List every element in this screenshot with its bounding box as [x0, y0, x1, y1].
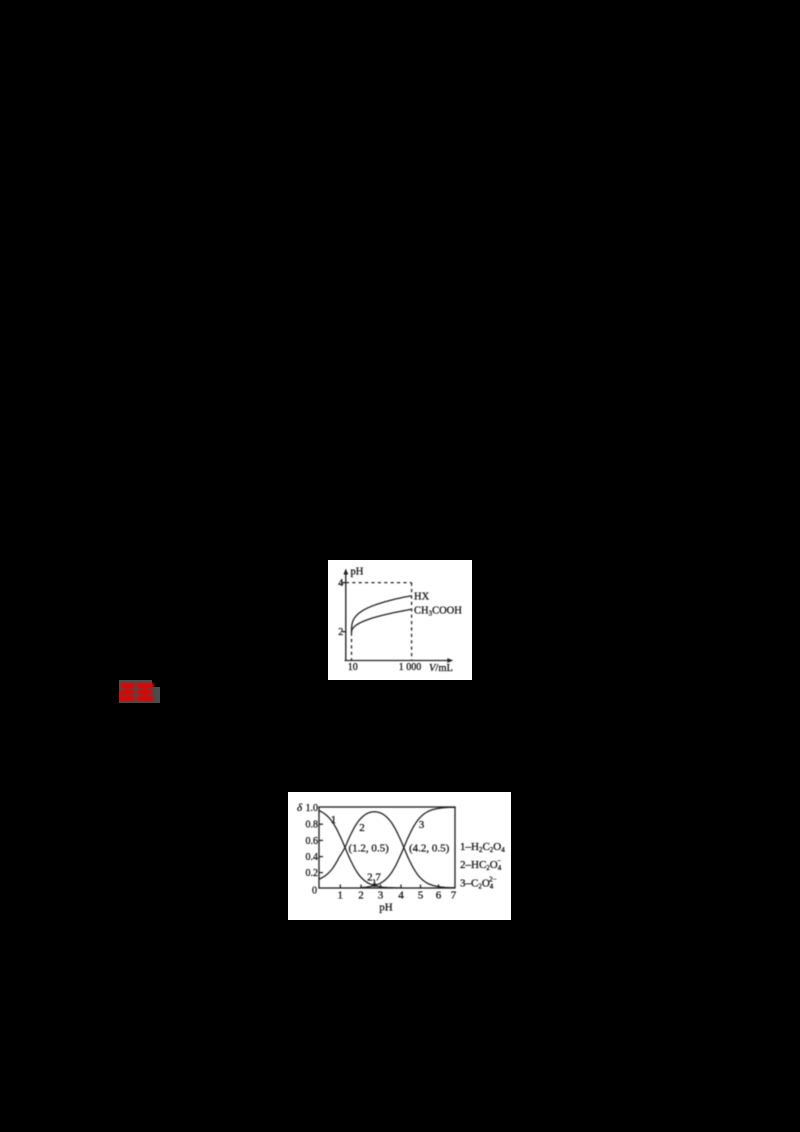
svg-text:6: 6: [436, 889, 442, 901]
svg-text:2: 2: [338, 627, 343, 638]
dashed vertical at V=1000: [411, 583, 413, 661]
curve 1 H2C2O4: [319, 811, 400, 888]
y-axis arrowhead: [343, 569, 348, 575]
svg-text:4: 4: [338, 578, 343, 589]
svg-text:pH: pH: [379, 902, 393, 914]
svg-text:CH3COOH: CH3COOH: [414, 605, 462, 617]
curve 2 HC2O4-: [319, 812, 455, 888]
stamp grey background: [119, 680, 152, 703]
x ticks: [339, 885, 341, 889]
svg-text:0.4: 0.4: [306, 852, 319, 863]
svg-text:10: 10: [348, 662, 358, 673]
svg-text:1: 1: [338, 889, 344, 901]
svg-text:1–H2C2O4: 1–H2C2O4: [460, 841, 505, 854]
y ticks: [319, 823, 323, 825]
dashed horizontal at pH4: [346, 582, 412, 584]
svg-text:HX: HX: [414, 592, 430, 603]
tick pH2: [342, 631, 346, 633]
curve CH3COOH: [352, 609, 412, 632]
svg-text:5: 5: [418, 889, 424, 901]
svg-text:4: 4: [398, 889, 404, 901]
dashed vertical at V=10: [351, 633, 353, 661]
svg-text:pH: pH: [351, 567, 364, 578]
figure 1: pH dilution chart: [328, 560, 472, 680]
curve 3 C2O4 2-: [361, 807, 455, 888]
svg-text:0.8: 0.8: [306, 820, 319, 831]
stamp red text strokes: [119, 683, 154, 702]
svg-text:3–C2O42−: 3–C2O42−: [460, 876, 497, 891]
svg-text:7: 7: [451, 889, 457, 901]
svg-text:1 000: 1 000: [399, 662, 422, 673]
curve HX: [352, 596, 412, 633]
svg-text:3: 3: [378, 889, 384, 901]
svg-text:1.0: 1.0: [306, 803, 319, 814]
svg-text:(1.2, 0.5): (1.2, 0.5): [349, 843, 390, 855]
svg-text:(4.2, 0.5): (4.2, 0.5): [409, 843, 450, 855]
svg-text:2–HC2O4−: 2–HC2O4−: [460, 857, 502, 872]
x-axis: [345, 660, 450, 662]
y-axis: [345, 571, 347, 661]
x-axis arrowhead: [447, 658, 453, 663]
svg-text:V/mL: V/mL: [429, 663, 453, 674]
svg-text:2.7: 2.7: [367, 872, 381, 884]
svg-text:0: 0: [312, 886, 317, 897]
svg-text:3: 3: [419, 819, 425, 831]
red answer stamp: [119, 680, 164, 711]
svg-text:1: 1: [331, 814, 337, 826]
arrow to 2.7 on axis: [374, 881, 376, 886]
svg-text:2: 2: [359, 822, 365, 834]
plot frame: [319, 807, 455, 888]
figure 2: speciation diagram: [288, 792, 511, 920]
svg-text:0.6: 0.6: [306, 836, 319, 847]
tick pH4: [342, 582, 346, 584]
svg-text:δ: δ: [297, 802, 303, 814]
svg-text:2: 2: [358, 889, 364, 901]
svg-text:0.2: 0.2: [306, 868, 319, 879]
